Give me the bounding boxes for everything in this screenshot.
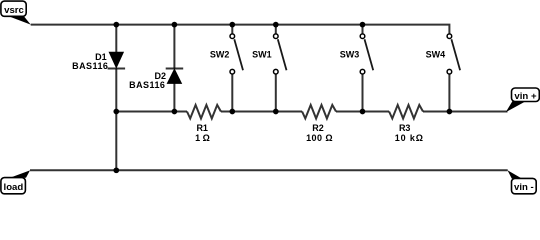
svg-text:SW1: SW1 bbox=[252, 50, 272, 60]
svg-text:BAS116: BAS116 bbox=[72, 61, 108, 71]
cathode bar bbox=[166, 68, 184, 70]
resistor R3 bbox=[389, 105, 424, 143]
svg-text:R2: R2 bbox=[312, 123, 324, 133]
net label load bbox=[1, 170, 30, 193]
switch SW1 bbox=[252, 25, 286, 112]
wire bottom terminal lead bbox=[448, 75, 450, 112]
svg-text:1 Ω: 1 Ω bbox=[195, 133, 210, 143]
junction row / D2 bbox=[172, 109, 178, 115]
wire top rail (vsrc to SW4) bbox=[31, 25, 450, 34]
switch SW2 bbox=[210, 25, 243, 112]
junction row / SW4 bbox=[447, 109, 453, 115]
junction row / D1 bbox=[113, 109, 119, 115]
svg-text:SW4: SW4 bbox=[426, 50, 446, 60]
R3 zigzag body bbox=[389, 105, 423, 119]
net label vin - bbox=[508, 170, 537, 194]
wire anode lead bbox=[173, 83, 175, 111]
terminal circle top bbox=[274, 34, 279, 39]
anode triangle bbox=[167, 69, 181, 83]
anode triangle bbox=[109, 52, 123, 67]
wire bottom terminal lead bbox=[231, 75, 233, 112]
wire cathode lead bbox=[115, 69, 117, 112]
junction top rail / SW1 bbox=[273, 22, 279, 28]
lever bbox=[234, 39, 243, 70]
diode D1 (BAS116, cathode down) bbox=[72, 25, 125, 112]
junction bottom rail / D1 bbox=[113, 167, 119, 173]
diode D2 (BAS116, cathode up) bbox=[129, 25, 183, 112]
svg-text:100 Ω: 100 Ω bbox=[306, 133, 333, 143]
junction row / SW1 bbox=[273, 109, 279, 115]
junction row / SW2 bbox=[229, 109, 235, 115]
svg-text:SW2: SW2 bbox=[210, 50, 230, 60]
wire middle row segment B (R1 to R2) bbox=[221, 111, 302, 113]
svg-text:load: load bbox=[4, 182, 24, 193]
junction row / SW3 bbox=[360, 109, 366, 115]
svg-text:vin +: vin + bbox=[514, 91, 537, 102]
net label vin + bbox=[506, 88, 540, 112]
wire middle row segment A (D1 node to R1) bbox=[116, 111, 187, 113]
terminal circle bottom bbox=[230, 69, 235, 74]
wire cathode lead bbox=[173, 25, 175, 69]
svg-text:SW3: SW3 bbox=[340, 50, 360, 60]
svg-text:BAS116: BAS116 bbox=[129, 80, 165, 90]
terminal circle top bbox=[230, 34, 235, 39]
junction top rail / SW2 bbox=[229, 22, 235, 28]
terminal circle top bbox=[360, 34, 365, 39]
lever bbox=[451, 39, 460, 70]
wire bottom terminal lead bbox=[275, 75, 277, 112]
junction top rail / SW3 bbox=[360, 22, 366, 28]
wire top terminal lead bbox=[275, 25, 277, 34]
wire middle row segment D (R3 to vin+) bbox=[423, 111, 508, 113]
wire anode lead bbox=[115, 25, 117, 53]
wire bottom terminal lead bbox=[362, 75, 364, 112]
junction top rail / D1 bbox=[113, 22, 119, 28]
terminal circle bottom bbox=[447, 69, 452, 74]
resistor R1 bbox=[187, 105, 221, 143]
svg-text:10 kΩ: 10 kΩ bbox=[395, 133, 424, 143]
terminal circle bottom bbox=[274, 69, 279, 74]
resistor R2 bbox=[302, 105, 336, 143]
svg-text:R1: R1 bbox=[196, 123, 208, 133]
wire middle row segment C (R2 to R3) bbox=[336, 111, 389, 113]
cathode bar bbox=[108, 68, 126, 70]
switch SW4 bbox=[426, 34, 460, 112]
net label vsrc bbox=[1, 1, 31, 25]
wire top terminal lead bbox=[362, 25, 364, 34]
lever bbox=[278, 39, 287, 70]
svg-text:vsrc: vsrc bbox=[4, 5, 24, 16]
terminal circle top bbox=[447, 34, 452, 39]
wire top terminal lead bbox=[231, 25, 233, 34]
svg-text:vin -: vin - bbox=[514, 182, 534, 193]
R2 zigzag body bbox=[302, 105, 336, 119]
wire D1 column to bottom rail bbox=[115, 112, 117, 171]
switch SW3 bbox=[340, 25, 373, 112]
lever bbox=[365, 39, 374, 70]
svg-text:R3: R3 bbox=[399, 123, 411, 133]
junction top rail / D2 bbox=[172, 22, 178, 28]
R1 zigzag body bbox=[187, 105, 221, 119]
terminal circle bottom bbox=[360, 69, 365, 74]
wire bottom rail (load to vin-) bbox=[30, 169, 508, 171]
